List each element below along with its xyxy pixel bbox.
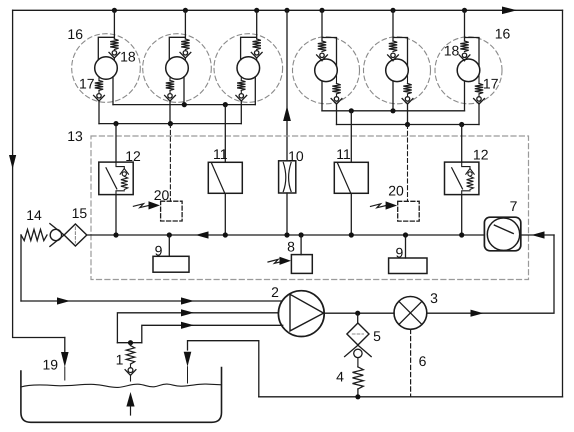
spray head assembly 6 (dashed enclosure) — [435, 37, 502, 104]
valve 12 (left) body — [99, 162, 133, 195]
regulator 7 body — [484, 217, 520, 251]
wire line B to valve 12 left — [115, 124, 117, 163]
valve 11 (left) body — [208, 162, 242, 193]
node junction valve 11 feed on line A — [223, 102, 228, 107]
spray head assembly 5 (dashed enclosure) — [364, 37, 431, 104]
motor circle nozzle 1 — [95, 57, 118, 80]
node main line junction valve12L — [113, 232, 118, 237]
wire left tank drop with arrow — [64, 338, 66, 353]
check valve 17 ball+seat (nozzle 3) — [240, 90, 242, 93]
node junction valve 12 feed on line B — [113, 121, 118, 126]
sensor box 20 left (dashed) — [161, 201, 183, 221]
motor circle nozzle 2 — [166, 57, 189, 80]
motor circle nozzle 4 — [315, 59, 338, 82]
svg-text:20: 20 — [154, 187, 170, 203]
wire check output down (nozzle 4) — [336, 104, 338, 124]
svg-text:18: 18 — [120, 49, 136, 65]
node main line junction box9R stub — [403, 232, 408, 237]
wire valve 12 right to main line — [461, 195, 463, 235]
wire line B right to valve 12 right — [461, 125, 463, 163]
pilot line to box 20 right (dashed) — [407, 125, 409, 202]
svg-text:11: 11 — [213, 146, 228, 162]
node supply junction nozzle 2 — [183, 8, 188, 13]
wire pump feed line 1 — [21, 300, 282, 302]
wire check output down (nozzle 1) — [98, 101, 100, 124]
filter 5 (diamond) — [347, 323, 369, 345]
svg-text:1: 1 — [116, 352, 124, 368]
wire supply drop nozzle 4 — [322, 10, 337, 66]
regulator 7 handle line — [494, 225, 513, 233]
node main line junction valve11L — [223, 232, 228, 237]
node discharge junction — [355, 311, 360, 316]
wire stub to box 8 — [300, 235, 302, 255]
svg-text:6: 6 — [419, 353, 427, 369]
node arrow left into regulator 7 — [532, 231, 545, 238]
wire drain down (nozzle 2) — [183, 77, 185, 105]
node arrow left on main line — [196, 231, 209, 238]
spray head assembly 3 (dashed enclosure) — [214, 34, 283, 103]
valve 11 (right) diagonal — [338, 163, 351, 193]
motor 3 circle with X — [394, 297, 427, 330]
check valve 17 spring (nozzle 5) — [407, 75, 409, 84]
foot valve 1 ball+seat — [130, 364, 132, 368]
svg-text:9: 9 — [155, 242, 163, 258]
sensor box 20 right (dashed) — [398, 201, 420, 221]
check valve 18 spring (nozzle 2) — [181, 39, 189, 50]
wire valve 11 right to main line — [350, 193, 352, 235]
wire supply drop nozzle 2 — [169, 10, 185, 60]
restrictor 10 venturi curves — [283, 163, 291, 192]
node junction nozzle 5 drain on line A right — [390, 108, 395, 113]
check valve 17 spring (nozzle 2) — [169, 77, 171, 81]
wire supply drop nozzle 5 — [393, 10, 408, 66]
valve 12 (right) internals: diagonal, check ball, spring — [452, 168, 463, 189]
check valve below filter 5 — [345, 345, 372, 356]
tank 19 water surface (wavy) — [21, 384, 222, 387]
wire line A to valve 11 left — [224, 105, 226, 163]
wire valve 11 left to main line — [224, 193, 226, 235]
wire drain collector line A (right group) — [322, 110, 465, 112]
check valve 18 ball+seat (nozzle 2) — [183, 51, 187, 55]
drain line 6 (dashed) — [410, 329, 412, 397]
wire drain collector line A (left group) — [113, 104, 255, 106]
motor circle nozzle 6 — [457, 59, 480, 82]
svg-text:3: 3 — [430, 290, 438, 306]
check valve 18 ball+seat (nozzle 3) — [255, 51, 259, 55]
box 9 right — [389, 258, 427, 274]
svg-text:2: 2 — [271, 284, 279, 300]
spray head assembly 1 (dashed enclosure) — [72, 34, 141, 103]
tank 19 walls — [21, 368, 222, 423]
node suction arrow up in tank — [126, 392, 134, 407]
node junction valve 11 feed on line A right — [349, 108, 354, 113]
svg-text:19: 19 — [43, 357, 59, 373]
check valve 18 spring (nozzle 1) — [110, 39, 118, 50]
node supply junction nozzle 1 — [112, 8, 117, 13]
check valve 18 spring (nozzle 5) — [389, 41, 397, 52]
svg-text:18: 18 — [444, 43, 460, 59]
node supply junction nozzle 4 — [319, 8, 324, 13]
wire top supply bus — [13, 9, 563, 11]
wire drain down (nozzle 6) — [464, 81, 466, 111]
wire pump feed line 3 — [142, 325, 283, 342]
wire check output down (nozzle 3) — [240, 101, 242, 124]
svg-text:14: 14 — [26, 207, 42, 223]
wire bottom return line — [259, 396, 563, 398]
wire drain down (nozzle 5) — [392, 81, 394, 111]
node main line junction valve12R — [459, 232, 464, 237]
node main line junction box8 stub — [299, 232, 304, 237]
manifold enclosure 13 (dashed box) — [91, 136, 529, 280]
valve 12 (left) internals: diagonal, check ball, spring — [106, 168, 117, 189]
node main line junction box9L stub — [167, 232, 172, 237]
pump 2 circle — [278, 291, 324, 337]
wire right return edge — [562, 10, 564, 397]
foot valve 1 spring — [130, 343, 132, 346]
wire drain down (nozzle 3) — [254, 77, 256, 105]
valve 12 (right) body — [445, 162, 479, 195]
spring 4 — [353, 367, 364, 389]
check valve 18 ball+seat (nozzle 1) — [112, 51, 116, 55]
check valve 17 spring (nozzle 4) — [336, 75, 338, 84]
node main line junction valve11R — [349, 232, 354, 237]
wire valve 12 left to main line — [115, 195, 117, 235]
svg-text:9: 9 — [396, 244, 404, 260]
wire check output down (nozzle 5) — [407, 104, 409, 124]
svg-text:7: 7 — [510, 198, 518, 214]
wire center supply line — [286, 10, 288, 235]
valve 11 (right) body — [334, 162, 368, 193]
wire return riser to tank — [188, 341, 259, 397]
node foot valve junction — [128, 340, 133, 345]
check valve 17 spring (nozzle 6) — [478, 75, 480, 84]
wire check collector line B (right group) — [337, 124, 480, 126]
svg-text:16: 16 — [67, 26, 83, 42]
wire supply drop nozzle 6 — [465, 10, 480, 66]
svg-text:4: 4 — [336, 369, 344, 385]
wire suction riser left — [20, 235, 22, 301]
node arrow into tank right — [184, 352, 192, 367]
check valve 18 spring (nozzle 4) — [318, 41, 326, 52]
wire drain down (nozzle 1) — [112, 77, 114, 105]
wire stub to box 9 left — [168, 235, 170, 256]
wire stub to filter 5 — [357, 313, 359, 323]
check valve 17 spring (nozzle 1) — [98, 77, 100, 81]
check valve 18 spring (nozzle 3) — [253, 39, 261, 50]
motor circle nozzle 3 — [237, 57, 260, 80]
svg-text:10: 10 — [288, 148, 304, 164]
svg-text:17: 17 — [79, 76, 95, 92]
node supply junction nozzle 6 — [462, 8, 467, 13]
node junction spring 4 on bottom line — [355, 394, 360, 399]
check valve 17 ball+seat (nozzle 2) — [169, 90, 171, 93]
box 8 — [291, 255, 312, 274]
spray head assembly 2 (dashed enclosure) — [143, 34, 212, 103]
node supply junction nozzle 5 — [390, 8, 395, 13]
node junction valve 12 feed on line B right — [459, 122, 464, 127]
wire left return edge — [13, 10, 65, 337]
node junction pilot tap on line B right — [405, 122, 410, 127]
check valve 18 ball+seat (nozzle 4) — [320, 53, 324, 57]
wire check output down (nozzle 6) — [478, 104, 480, 124]
spray head assembly 4 (dashed enclosure) — [293, 37, 360, 104]
svg-text:15: 15 — [72, 205, 88, 221]
check valve 18 spring (nozzle 6) — [460, 41, 468, 52]
node arrow down on left edge — [9, 155, 16, 169]
check valve 17 ball+seat (nozzle 6) — [478, 94, 480, 97]
node arrow right on top bus — [502, 7, 517, 15]
electric signal arrow into box 20 right — [371, 204, 387, 208]
wire line A right to valve 11 right — [350, 111, 352, 163]
node junction pilot tap on line B — [168, 121, 173, 126]
check valve 17 ball+seat (nozzle 4) — [336, 94, 338, 97]
svg-text:16: 16 — [495, 26, 511, 42]
node main line junction restrictor10 — [284, 232, 289, 237]
electric signal arrow into box 20 left — [133, 204, 149, 208]
wire pump discharge line — [324, 235, 554, 313]
svg-text:13: 13 — [67, 128, 83, 144]
svg-text:20: 20 — [388, 183, 404, 199]
svg-text:17: 17 — [483, 76, 499, 92]
wire pump feed line 2 — [117, 313, 278, 343]
node junction on line A — [182, 102, 187, 107]
node arrow up on center line — [283, 106, 291, 121]
check valve ball at filter 15 — [50, 229, 61, 240]
wire check collector line B (left group) — [99, 123, 241, 125]
node supply junction center line — [284, 8, 289, 13]
check valve 18 ball+seat (nozzle 5) — [391, 53, 395, 57]
wire main manifold line — [87, 234, 554, 236]
check valve 17 spring (nozzle 3) — [240, 77, 242, 81]
check valve 18 ball+seat (nozzle 6) — [462, 53, 466, 57]
pilot line to box 20 left (dashed) — [169, 124, 171, 202]
spring 14 (horizontal) — [21, 229, 47, 240]
restrictor 10 body — [279, 161, 296, 193]
svg-text:5: 5 — [373, 328, 381, 344]
wire foot valve header — [117, 342, 141, 344]
electric signal arrow into box 8 — [268, 259, 284, 263]
box 9 left — [153, 256, 189, 272]
svg-text:12: 12 — [125, 148, 141, 164]
wire supply drop nozzle 1 — [98, 10, 114, 60]
check valve 17 ball+seat (nozzle 1) — [98, 90, 100, 93]
node supply junction nozzle 3 — [254, 8, 259, 13]
svg-text:11: 11 — [336, 146, 351, 162]
valve 11 (left) diagonal — [212, 163, 225, 193]
svg-text:12: 12 — [473, 147, 489, 163]
wire stub to box 9 right — [405, 235, 407, 258]
wire drain down (nozzle 4) — [321, 81, 323, 111]
pump 2 triangle — [290, 294, 324, 331]
svg-text:8: 8 — [287, 239, 295, 255]
motor circle nozzle 5 — [386, 59, 409, 82]
filter 15 (diamond) — [64, 224, 87, 246]
wire supply drop nozzle 3 — [241, 10, 257, 60]
wire check output down (nozzle 2) — [169, 101, 171, 124]
check valve 17 ball+seat (nozzle 5) — [407, 94, 409, 97]
